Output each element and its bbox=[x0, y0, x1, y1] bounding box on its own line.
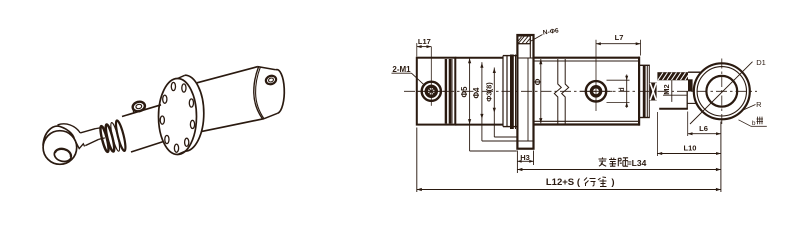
svg-text:D1: D1 bbox=[756, 58, 766, 67]
svg-text:2-M1: 2-M1 bbox=[392, 65, 411, 74]
axis centerline bbox=[404, 90, 757, 92]
svg-text:L10: L10 bbox=[684, 144, 697, 153]
locknut with cross bbox=[650, 83, 657, 101]
label N-phi6 with leader bbox=[531, 27, 559, 41]
svg-text:L12+S: L12+S bbox=[546, 177, 574, 188]
flange bolt hole hatch N-phi6 bbox=[517, 36, 530, 44]
3D view: end cap port hole bbox=[265, 74, 277, 85]
installation distance dimension line bbox=[517, 168, 721, 171]
gland spacer before flange bbox=[507, 55, 516, 130]
label anzhuangju =L34 bbox=[599, 157, 647, 168]
3D view: cylinder barrel bbox=[197, 67, 264, 132]
barrel port circles bbox=[580, 40, 613, 111]
dimension L10 bbox=[657, 112, 721, 156]
3D view: cylinder head tube bbox=[122, 105, 164, 152]
dimension M2 thread bbox=[662, 80, 672, 102]
3D view: flange bolt holes bbox=[160, 82, 194, 152]
break symbol bbox=[554, 59, 568, 124]
rear port 2-M1 circles bbox=[418, 47, 447, 106]
svg-text:(: ( bbox=[577, 177, 581, 188]
dimension L6 bbox=[688, 112, 721, 137]
3D view: barrel-to-cap groove bbox=[254, 67, 264, 119]
3D view: end cap bbox=[258, 67, 284, 119]
mounting flange plate bbox=[517, 35, 533, 149]
svg-text:L7: L7 bbox=[615, 33, 624, 42]
label R with leader bbox=[742, 100, 762, 111]
3D view: rod-end spherical eye bbox=[43, 124, 85, 164]
dimension Phi5 bbox=[460, 58, 517, 151]
dimension Phi4 bbox=[472, 62, 517, 141]
cylinder barrel tube bbox=[534, 57, 640, 126]
svg-text:d: d bbox=[619, 87, 626, 91]
dimension d of port bbox=[607, 75, 630, 108]
svg-text:Φ4: Φ4 bbox=[472, 87, 481, 99]
svg-text:L6: L6 bbox=[699, 124, 708, 133]
dimension L17 bbox=[417, 37, 432, 57]
3D view: port boss on head tube bbox=[132, 100, 146, 112]
3D view: rod neck cone bbox=[80, 129, 98, 146]
dimension Phi bore bbox=[534, 59, 543, 123]
svg-text:M2: M2 bbox=[662, 84, 671, 94]
rod gland at barrel end bbox=[640, 65, 650, 117]
3D view: gland seal rings bbox=[99, 120, 127, 153]
label 2-M1 with leader bbox=[392, 65, 424, 84]
rod eye ring bbox=[694, 59, 750, 127]
svg-text:Φ5: Φ5 bbox=[460, 86, 469, 98]
head mid-section joints bbox=[455, 56, 517, 127]
svg-text:R: R bbox=[756, 100, 762, 109]
3D view: mounting flange disc bbox=[159, 75, 204, 154]
eye socket threaded tube with hatch bbox=[657, 72, 703, 112]
svg-text:N-Φ6: N-Φ6 bbox=[542, 27, 559, 36]
svg-text:Φ: Φ bbox=[534, 78, 543, 85]
svg-text:=L34: =L34 bbox=[627, 158, 647, 168]
dimension H3 boxed bbox=[517, 151, 533, 174]
svg-text:): ) bbox=[611, 177, 614, 188]
svg-text:H3: H3 bbox=[520, 153, 530, 162]
eye diagonal centerline / D1 leader bbox=[690, 62, 753, 124]
3D view: piston rod bbox=[96, 127, 105, 139]
rear cap block bbox=[417, 58, 456, 125]
label b-flat with leader bbox=[739, 117, 767, 127]
dimension L12+S stroke bbox=[417, 122, 721, 193]
svg-text:L17: L17 bbox=[418, 37, 431, 46]
dimension Phi3(8) bbox=[485, 68, 517, 138]
svg-text:Φ3(8): Φ3(8) bbox=[485, 82, 494, 102]
label D1 bbox=[756, 58, 766, 67]
dimension L7 bbox=[596, 33, 641, 56]
